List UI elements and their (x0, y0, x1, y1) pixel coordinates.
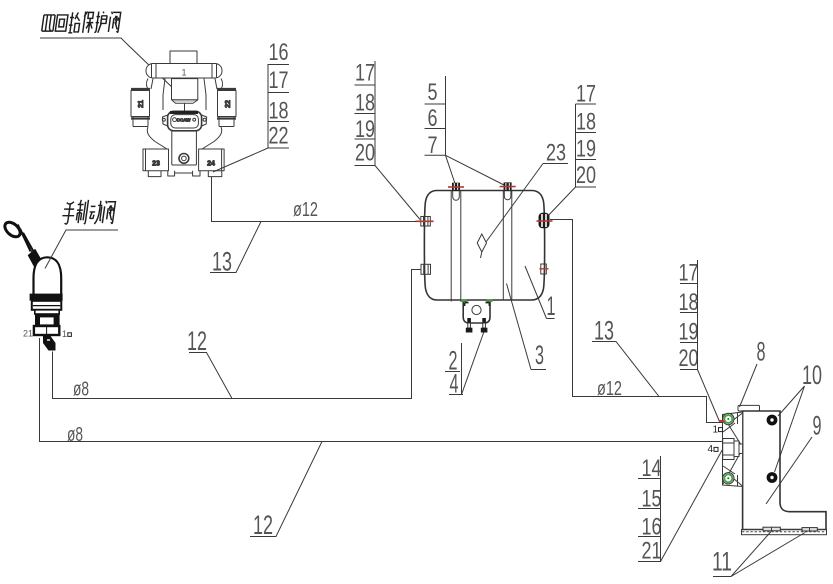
PV side port 22 (217, 89, 236, 127)
tank left lower fitting (to hand brake pipe) (421, 264, 431, 274)
leader to tank top fitting left (446, 155, 456, 183)
tank right lower fitting (539, 264, 548, 274)
leader to valve port 4 fitting (661, 450, 723, 562)
red seal mark (415, 220, 433, 222)
svg-text:3: 3 (535, 340, 544, 370)
handle shaft (18, 225, 38, 259)
PV side port 21 (131, 89, 150, 127)
svg-text:1: 1 (713, 425, 719, 436)
valve port 4 stepped fitting (723, 439, 734, 460)
svg-text:23: 23 (546, 140, 566, 167)
PV lower column (172, 131, 197, 165)
red seal mark (500, 186, 516, 188)
tank strap right (item 3) (503, 191, 512, 301)
svg-text:5: 5 (428, 79, 438, 106)
glyph 阀 (102, 201, 115, 224)
leader to PV port 24 (213, 148, 268, 172)
stack side rule (697, 260, 699, 370)
svg-text:21: 21 (23, 329, 33, 339)
svg-text:23: 23 (152, 161, 160, 168)
svg-text:1: 1 (181, 68, 186, 78)
PV bottom port 23 (143, 149, 169, 171)
stack side rule (267, 65, 269, 149)
svg-text:12: 12 (253, 510, 273, 540)
body dark section (35, 314, 60, 326)
tank right side fitting (items 17/18/19/20) (537, 213, 553, 229)
red seal marks (537, 220, 553, 222)
svg-text:17: 17 (576, 81, 596, 108)
drain circle (472, 305, 481, 314)
leader to valve port 1 (698, 370, 720, 422)
pipe ø12 (item 13) from PV port 24 to tank inlet (212, 177, 417, 222)
PV left shoulder curls (147, 79, 223, 89)
svg-text:16: 16 (269, 39, 289, 66)
callout stack 17/18/19/20 (tank right fitting) (545, 81, 596, 220)
svg-text:ø8: ø8 (73, 379, 89, 401)
glyph 阀 (108, 12, 121, 33)
svg-text:19: 19 (679, 319, 699, 346)
glyph 保 (82, 12, 95, 33)
svg-text:18: 18 (576, 109, 596, 136)
svg-text:17: 17 (355, 60, 375, 87)
callout stack 2/4 (drain valve parts) (445, 332, 484, 399)
body band 1 (32, 301, 62, 310)
bracket base plate with slots (item 11) (742, 527, 827, 535)
svg-text:9: 9 (813, 411, 822, 441)
tank marking diamond (item 23) (477, 234, 486, 258)
svg-text:21: 21 (642, 538, 662, 565)
svg-text:20: 20 (355, 140, 375, 167)
pipe ø8 (item 12) hand brake valve to relay valve port 4 (40, 338, 723, 442)
svg-text:19: 19 (576, 136, 596, 163)
callout stack 16/17/18/22 (protection valve parts) (213, 39, 289, 172)
stack side rule (575, 104, 577, 187)
air reservoir tank (item 1) (424, 191, 544, 301)
PV nameplate OCAW oval (168, 111, 202, 131)
PV upper body / recess (172, 79, 198, 104)
svg-text:1: 1 (62, 329, 67, 339)
svg-text:18: 18 (679, 289, 699, 316)
svg-text:OCAW: OCAW (177, 118, 192, 123)
glyph 制 (75, 200, 88, 224)
leader from hand brake label to dome (45, 230, 118, 269)
glyph 回 (55, 15, 68, 31)
svg-text:11: 11 (712, 547, 732, 577)
callout stack 14/15/16/21 (valve mounting parts) (638, 450, 723, 565)
green weld marks (461, 299, 493, 302)
svg-text:ø12: ø12 (293, 199, 318, 221)
tank strap left (item 3) (451, 191, 461, 302)
hand brake valve (手制动阀) (2, 219, 71, 350)
label: four-circuit protection valve name (四回路保护阀) (42, 12, 121, 33)
svg-text:17: 17 (679, 260, 699, 287)
svg-text:6: 6 (428, 105, 438, 132)
four-circuit protection valve (131, 51, 236, 177)
outlet spout (43, 336, 56, 351)
leader to tank left fitting (375, 166, 420, 220)
svg-text:ø8: ø8 (67, 424, 83, 446)
pipe ø8 (item 12) hand brake valve to tank lower fitting (53, 270, 422, 399)
leader to tank right fitting (545, 187, 576, 219)
green port upper (723, 413, 734, 424)
glyph 护 (94, 12, 108, 33)
leader from label to protection valve (40, 38, 176, 91)
svg-text:20: 20 (679, 345, 699, 372)
svg-text:22: 22 (269, 123, 289, 150)
label: hand brake valve name (手制动阀) (61, 200, 115, 224)
tank left side fitting (items 17/18/19/20) (415, 217, 433, 227)
svg-text:12: 12 (187, 326, 207, 356)
green port lower (723, 473, 734, 484)
svg-text:20: 20 (576, 162, 596, 189)
stack side rule (660, 456, 662, 562)
drain bolt right (481, 318, 488, 333)
spring brake relay valve (item 8) (723, 412, 743, 487)
callout stack 17/18/19/20 (relay valve fitting) (679, 260, 720, 422)
leader to tank top fitting right (446, 155, 505, 185)
svg-text:14: 14 (642, 455, 662, 482)
PV bottom port 24 (199, 149, 225, 171)
red seal mark (539, 268, 548, 270)
handle grip band (28, 249, 43, 269)
glyph 动 (88, 201, 103, 224)
PV top bar with rounded ends (146, 64, 222, 79)
PV top cap (170, 51, 197, 64)
mounting bracket (item 9) (743, 411, 826, 530)
PV side lugs with bolt holes (163, 115, 207, 126)
svg-text:8: 8 (757, 337, 766, 367)
svg-text:17: 17 (269, 67, 289, 94)
svg-text:1: 1 (547, 291, 556, 321)
tank top fitting right (items 5/6/7) (500, 182, 516, 199)
PV bottom feet (148, 171, 222, 177)
callout stack 5/6/7 (tank top fittings) (425, 76, 505, 185)
red seal mark (448, 186, 464, 188)
leader to drain bolt (462, 332, 485, 395)
valve dome (34, 257, 62, 294)
mounting bolt holes (item 10) (767, 415, 778, 426)
svg-text:4: 4 (708, 444, 714, 455)
svg-text:ø12: ø12 (597, 378, 622, 400)
handle knob (2, 219, 23, 239)
relay valve mounting tab (item 8 attach) (738, 405, 760, 411)
pipe ø12 (item 13) tank right fitting to relay valve port 1 (550, 220, 723, 423)
red seal mark at valve port 1 (719, 420, 725, 422)
glyph 路 (68, 12, 81, 32)
slot left (763, 527, 780, 531)
glyph 手 (61, 202, 76, 224)
body bottom band (34, 326, 59, 335)
stack side rule (461, 343, 463, 395)
stack side rule (445, 76, 447, 155)
svg-text:18: 18 (355, 90, 375, 117)
svg-text:18: 18 (269, 98, 289, 125)
svg-text:21: 21 (138, 100, 145, 108)
drain bolt left (466, 318, 473, 333)
svg-text:24: 24 (207, 161, 215, 168)
body band 2 (35, 310, 59, 314)
valve bracing (723, 413, 743, 487)
tank top fitting left (items 5/6/7) (448, 183, 464, 201)
PV lower shoulders (147, 127, 221, 142)
stack side rule (374, 61, 376, 166)
svg-text:22: 22 (225, 100, 232, 108)
leader to diamond marking (486, 164, 543, 243)
svg-text:10: 10 (802, 360, 822, 390)
PV drain ring (179, 154, 189, 164)
tank drain bracket (items 2/4) (461, 301, 493, 333)
slot right (802, 528, 817, 531)
collar band (30, 294, 63, 301)
callout stack 17/18/19/20 (tank inlet fitting, left) (355, 60, 421, 220)
glyph 四 (42, 15, 55, 31)
